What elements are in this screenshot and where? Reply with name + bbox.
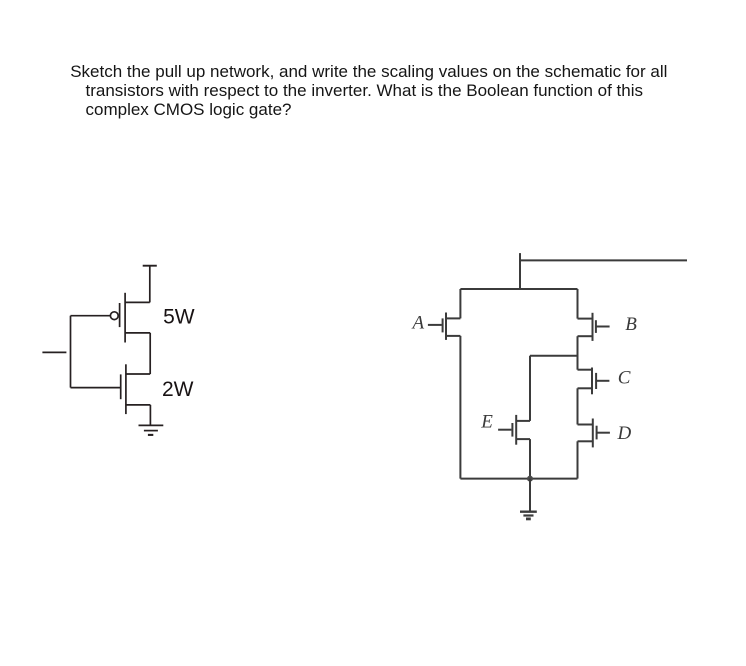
- wire VDD to PMOS drain: [149, 266, 151, 303]
- ground complex gate: [520, 511, 537, 513]
- nmos 2W source lead: [126, 404, 150, 406]
- wire top rail: [460, 288, 577, 290]
- transistor A drain lead: [446, 317, 460, 319]
- pmos 5W source lead: [125, 332, 150, 334]
- transistor D source lead: [578, 440, 593, 442]
- wire C to D: [577, 388, 579, 424]
- transistor B source lead: [578, 335, 593, 337]
- transistor E drain lead: [516, 420, 530, 422]
- nmos 2W channel bar: [125, 364, 127, 414]
- transistor E gate bar: [511, 423, 513, 437]
- transistor E gate stub: [498, 429, 511, 431]
- ground inverter: [139, 424, 164, 426]
- transistor C gate bar: [595, 373, 597, 389]
- wire input to nmos gate: [71, 387, 121, 389]
- wire bottom rail: [460, 478, 577, 480]
- wire D source to bottom rail: [577, 441, 579, 478]
- transistor D gate stub: [597, 432, 610, 434]
- transistor C source lead: [578, 387, 593, 389]
- pmos 5W inversion bubble: [110, 312, 118, 320]
- transistor C channel bar: [591, 368, 593, 395]
- transistor B channel bar: [592, 313, 594, 341]
- transistor B drain lead: [578, 318, 593, 320]
- transistor A channel bar: [445, 313, 447, 340]
- transistor A gate stub: [428, 324, 442, 326]
- transistor A source lead: [446, 335, 460, 337]
- wire input to pmos gate: [71, 315, 111, 317]
- transistor A gate bar: [442, 318, 444, 332]
- svg-text:2W: 2W: [162, 378, 194, 401]
- wire nmos source to ground: [149, 405, 151, 426]
- nmos 2W gate bar: [120, 374, 122, 399]
- junction node dot: [527, 476, 533, 482]
- pmos 5W drain lead: [125, 301, 150, 303]
- wire mid vertical to E drain: [529, 356, 531, 421]
- wire input vertical: [70, 316, 72, 388]
- VDD stub vertical: [519, 253, 521, 288]
- transistor D channel bar: [592, 419, 594, 448]
- transistor B gate bar: [595, 320, 597, 333]
- wire mid horizontal to E: [530, 355, 578, 357]
- nmos 2W drain lead: [126, 373, 150, 375]
- svg-text:Sketch the pull up network, an: Sketch the pull up network, and write th…: [70, 62, 667, 81]
- svg-text:E: E: [480, 412, 493, 433]
- transistor E channel bar: [515, 415, 517, 445]
- pmos 5W channel bar: [124, 293, 126, 343]
- wire junction to ground: [529, 479, 531, 511]
- VDD symbol inverter: [143, 265, 157, 267]
- svg-text:5W: 5W: [163, 306, 195, 329]
- svg-text:transistors with respect to th: transistors with respect to the inverter…: [86, 81, 644, 100]
- svg-text:complex CMOS logic gate?: complex CMOS logic gate?: [86, 100, 292, 119]
- transistor C drain lead: [578, 369, 593, 371]
- svg-text:B: B: [625, 314, 637, 335]
- transistor E source lead: [516, 438, 530, 440]
- svg-text:D: D: [617, 423, 632, 444]
- wire E source to bottom rail: [529, 439, 531, 479]
- wire rail to A drain: [459, 289, 461, 318]
- pmos 5W gate bar: [119, 303, 121, 327]
- wire output node: [149, 333, 151, 374]
- wire rail to B drain: [577, 289, 579, 319]
- transistor D gate bar: [596, 426, 598, 440]
- svg-text:C: C: [618, 367, 631, 388]
- wire B to C: [577, 336, 579, 370]
- wire VDD horizontal rail: [519, 259, 687, 261]
- wire left branch: [459, 336, 461, 479]
- transistor C gate stub: [596, 380, 609, 382]
- wire input stub: [42, 351, 66, 353]
- svg-text:A: A: [411, 312, 425, 333]
- transistor D drain lead: [578, 424, 593, 426]
- transistor B gate stub: [596, 326, 609, 328]
